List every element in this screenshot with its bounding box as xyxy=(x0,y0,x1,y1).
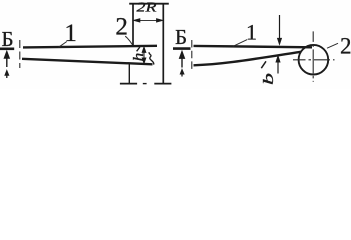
svg-text:b: b xyxy=(260,73,276,85)
base dash (left foot) xyxy=(120,83,137,85)
wedge left edge (vertical, left figure) xyxy=(132,4,134,46)
centre line (right datum, dash-dot vertical) xyxy=(191,40,193,70)
leader of label 2 (right) xyxy=(327,43,338,48)
leader of label 1 (left) xyxy=(59,42,67,48)
leader of label 2 (left, curved) xyxy=(125,36,132,45)
view arrow (right, pointing up) xyxy=(179,51,184,76)
svg-text:1: 1 xyxy=(64,20,77,47)
leader of label 1 (right) xyxy=(233,40,247,47)
break squiggle at end of lower plate xyxy=(149,52,154,64)
lower plate edge (right figure, sloping up) xyxy=(194,52,302,66)
svg-text:2: 2 xyxy=(340,34,351,59)
wedge top cap line xyxy=(129,3,169,5)
dimension line 2R with arrowheads xyxy=(134,19,162,22)
dimension b' upper arrow (pointing down at top line) xyxy=(278,15,282,44)
svg-text:2R: 2R xyxy=(137,1,158,16)
view arrow (left, pointing up) xyxy=(4,51,9,78)
view-arrow base stroke (right) xyxy=(173,47,191,50)
roller circle (ball, right figure) xyxy=(299,45,329,75)
wedge right edge (vertical, left figure) xyxy=(162,4,164,83)
lower plate edge (left figure bottom line) xyxy=(22,59,153,65)
part 1 upper plate edge (right figure top line) xyxy=(194,46,313,47)
svg-text:h: h xyxy=(131,53,147,62)
base dash-dot middle segment xyxy=(143,83,147,85)
lower-plate centre drop line (left figure) xyxy=(128,64,130,84)
roller vertical centre line xyxy=(312,31,314,81)
base dash (right foot) xyxy=(154,83,171,85)
svg-text:1: 1 xyxy=(246,20,257,45)
dimension b' lower arrow (pointing up at bottom line) xyxy=(276,56,280,74)
svg-text:Б: Б xyxy=(175,25,187,49)
view-arrow base stroke (left) xyxy=(0,47,14,50)
dimension text b' (rotated) xyxy=(260,61,276,85)
dimension text h' (rotated) xyxy=(131,47,147,61)
roller horizontal centre line xyxy=(293,59,335,61)
centre line (left datum, dash-dot vertical) xyxy=(19,40,21,68)
dimension h' line with arrowheads xyxy=(142,47,146,63)
svg-text:Б: Б xyxy=(2,27,14,51)
part 1 upper plate edge (left figure top line) xyxy=(23,46,157,48)
